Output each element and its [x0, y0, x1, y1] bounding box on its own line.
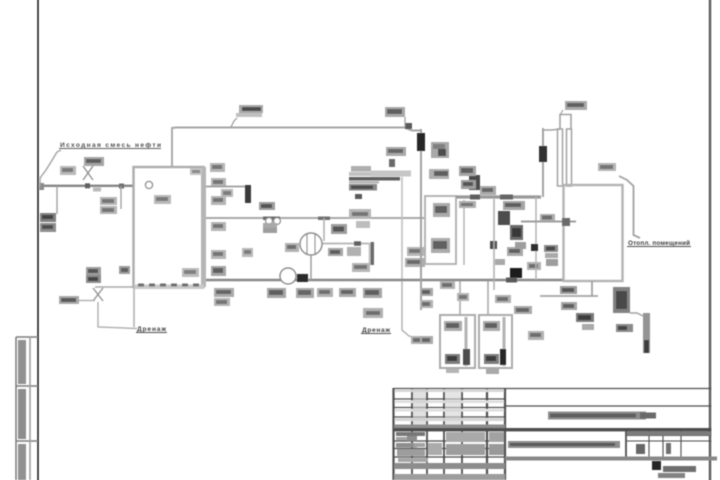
title text 2: Принципиальная схема установки — [508, 441, 620, 448]
label mid row — [352, 263, 370, 272]
feed pipe main — [39, 185, 134, 187]
filter top extra label a — [440, 281, 455, 289]
title block top line — [393, 388, 711, 390]
dark segment on header — [506, 278, 517, 283]
manifold light row — [349, 172, 371, 176]
drop pipe with arrow right bottom — [643, 313, 650, 353]
labels below vessel left pair — [86, 267, 101, 275]
pump P-2 — [274, 218, 281, 225]
overhead pipe step to riser — [404, 128, 421, 131]
svg-text:Исходная смесь нефти: Исходная смесь нефти — [60, 142, 161, 149]
tank side inlet line — [521, 221, 576, 223]
filter feed riser 2 — [487, 281, 489, 315]
bottom frame band under title — [505, 457, 717, 461]
valve on feed line — [83, 166, 93, 180]
exchanger bar small — [371, 242, 375, 265]
gray label under tank — [582, 324, 594, 330]
pump P-1 — [266, 218, 273, 225]
water inlet label — [59, 296, 79, 304]
manifold gray label — [351, 166, 371, 172]
mark below F-1 — [446, 369, 459, 373]
lit header shading — [627, 432, 711, 436]
label 10-7 — [565, 101, 587, 110]
title text 1: Автоматизированная установка — [548, 412, 646, 420]
verticals of left grid — [392, 388, 394, 480]
mixer to header drop — [310, 255, 312, 280]
cluster dark box above thick line — [469, 175, 480, 190]
overhead long pipe — [172, 127, 404, 130]
cluster label right — [527, 262, 541, 270]
filter side label F1 — [420, 288, 433, 296]
cluster gray box low — [515, 242, 526, 249]
dark mark on overhead pipe — [405, 123, 412, 129]
electrodehydrator vessel big rectangle — [134, 167, 204, 287]
cluster vertical line 0 — [463, 200, 465, 265]
kopiroval format area — [652, 461, 661, 470]
label below branch b — [347, 247, 361, 256]
pump on bottom header — [280, 268, 296, 284]
vertical pipe right with dark segment — [542, 128, 544, 197]
mid process pipe — [206, 217, 424, 219]
cluster dark box low — [490, 241, 497, 249]
label 10-8 — [598, 163, 616, 171]
vessel thick right wall — [201, 167, 206, 287]
mixer apparatus circle — [300, 233, 322, 255]
label above stubs — [210, 163, 225, 172]
dark heat exchanger bar — [245, 185, 251, 203]
left grid horizontals lower — [393, 440, 505, 442]
label cluster left of tank c — [546, 259, 558, 266]
riser from vessel top to overhead pipe — [171, 127, 173, 167]
cluster vertical line 2 — [535, 197, 537, 280]
label 9-1 — [363, 308, 383, 318]
cluster label top right — [503, 201, 525, 210]
small loop column pair top right — [560, 115, 571, 130]
cluster dark box mid — [498, 211, 510, 225]
left stamp rotated text block 3 — [18, 444, 26, 480]
small label at step end — [411, 336, 428, 344]
drain drop from vessel corner — [133, 288, 135, 327]
cluster vertical line 1 — [493, 199, 495, 290]
stacked labels under pumps — [263, 223, 277, 228]
valve dark on vertical pipe — [417, 133, 425, 151]
sheet left border — [37, 0, 39, 480]
bottom main header pipe — [206, 279, 563, 281]
label pair right mid — [407, 247, 425, 256]
label top mid — [386, 147, 406, 156]
column K-2 rectangle — [425, 196, 456, 264]
small label on transfer pipe — [221, 189, 233, 197]
transfer pipe from vessel to exchanger — [206, 186, 246, 188]
storage tank right — [564, 185, 623, 281]
left grid lower bands — [394, 463, 505, 469]
cluster small label low — [495, 259, 505, 265]
number cells — [636, 444, 645, 454]
K-2 inner label 1 — [433, 203, 450, 217]
manifold dark label — [349, 184, 377, 191]
label under tank 2 — [561, 302, 577, 310]
drop leg mid — [120, 186, 122, 209]
label right of stub — [331, 224, 347, 234]
vertical pipe with valve — [420, 129, 422, 310]
label 1-1 — [60, 166, 76, 175]
filter top extra label b — [457, 293, 469, 301]
vessel bottom hatched band — [134, 285, 204, 290]
mixer label left — [285, 243, 299, 252]
label 10-1 — [84, 157, 104, 166]
branch drop — [369, 243, 371, 266]
thick separator band — [393, 428, 711, 431]
svg-text:Отопл. помещений: Отопл. помещений — [628, 239, 690, 247]
manifold light band — [371, 171, 411, 177]
doc name field divider — [625, 431, 627, 458]
right wall stub label 2 — [211, 196, 226, 205]
tank bottom piping — [540, 295, 598, 297]
manifold dark bar — [349, 177, 400, 181]
vessel inner label — [154, 195, 171, 204]
manifold gray row — [349, 181, 379, 184]
label 10-2 underlined on overhead pipe — [231, 118, 237, 127]
tank bottom drop — [591, 281, 593, 296]
right part horizontal — [505, 405, 711, 407]
cluster label top — [459, 166, 476, 176]
small top label at vessel top right — [190, 168, 202, 175]
left grid text smudges top rows — [395, 390, 504, 393]
thick transfer line from K-2 top — [456, 195, 541, 198]
label on tank inlet line — [540, 214, 555, 221]
lit massa masshtab grid — [626, 431, 711, 458]
labels PU-1 pair — [100, 197, 117, 205]
filter feed riser 1 — [459, 281, 461, 315]
cluster label 2 — [461, 180, 476, 189]
dark segment on mid pipe 2 — [318, 217, 330, 221]
label 3-1 on overhead pipe right — [404, 117, 406, 127]
hatched apparatus under tank — [613, 287, 630, 313]
labels 1-2 dark pair — [40, 213, 56, 222]
dark segment on mid pipe — [263, 217, 280, 221]
right wall stub label 3 — [211, 222, 226, 231]
label 3-3 — [429, 169, 449, 179]
manifold side dark box — [389, 159, 395, 167]
cluster black box — [510, 268, 522, 278]
right wall stub label 5 — [211, 266, 226, 276]
small gray label right — [356, 221, 370, 228]
label cluster left of tank b — [545, 253, 558, 258]
feed inlet tick — [39, 183, 44, 190]
line under vessel to valve — [95, 286, 134, 288]
label above pumps dark — [259, 202, 275, 210]
header row smudge — [394, 425, 505, 429]
sheet right border — [709, 0, 712, 480]
dark valve cluster below hatched box — [616, 324, 633, 332]
left grid cell text smudges — [396, 432, 425, 436]
small label left of pumps — [242, 248, 253, 257]
manifold vertical drop — [401, 177, 403, 281]
drop leg left — [56, 186, 58, 214]
branch line from mixer — [322, 243, 369, 245]
label on mid pipe right — [349, 209, 371, 219]
labels row below bottom header — [214, 288, 234, 297]
manifold small dark box — [355, 194, 362, 199]
label below branch a — [328, 248, 343, 256]
tank overflow pipe right — [619, 176, 640, 238]
drain line from valve — [98, 302, 137, 329]
label cluster left of tank a — [544, 245, 558, 252]
vertical stub right of pumps — [323, 218, 325, 241]
right wall stub label 4 — [211, 250, 226, 259]
stepped riser from feed line to label — [40, 150, 61, 178]
cluster label below line — [459, 201, 476, 208]
left margin stamp column — [16, 337, 38, 480]
cluster label 3 — [480, 186, 496, 195]
K-2 inner label 2 — [431, 238, 450, 253]
black box left of tank — [531, 244, 538, 251]
left stamp rotated text block 2 — [18, 389, 26, 439]
left stamp rotated text block 1 — [18, 340, 26, 384]
cluster big dark blob — [510, 225, 523, 240]
filter vessel F-2 — [479, 315, 512, 368]
small label right of pair — [119, 266, 130, 274]
vessel bottom-right inner label — [182, 268, 199, 277]
left grid horizontals upper — [393, 398, 505, 400]
valve at vessel drain — [93, 288, 103, 301]
dark label under tank — [576, 313, 594, 322]
dark block on header — [297, 274, 308, 282]
filter vessel F-1 — [440, 315, 475, 368]
filter top labels — [495, 295, 511, 303]
mark below F-2 — [486, 369, 499, 374]
label 3-2 — [431, 142, 449, 158]
cluster label low — [507, 247, 523, 256]
right wall stub label 1 — [211, 178, 226, 187]
drop from header stepping right — [402, 281, 425, 340]
vessel inner circle — [145, 181, 152, 188]
label under tank 1 — [560, 286, 577, 294]
